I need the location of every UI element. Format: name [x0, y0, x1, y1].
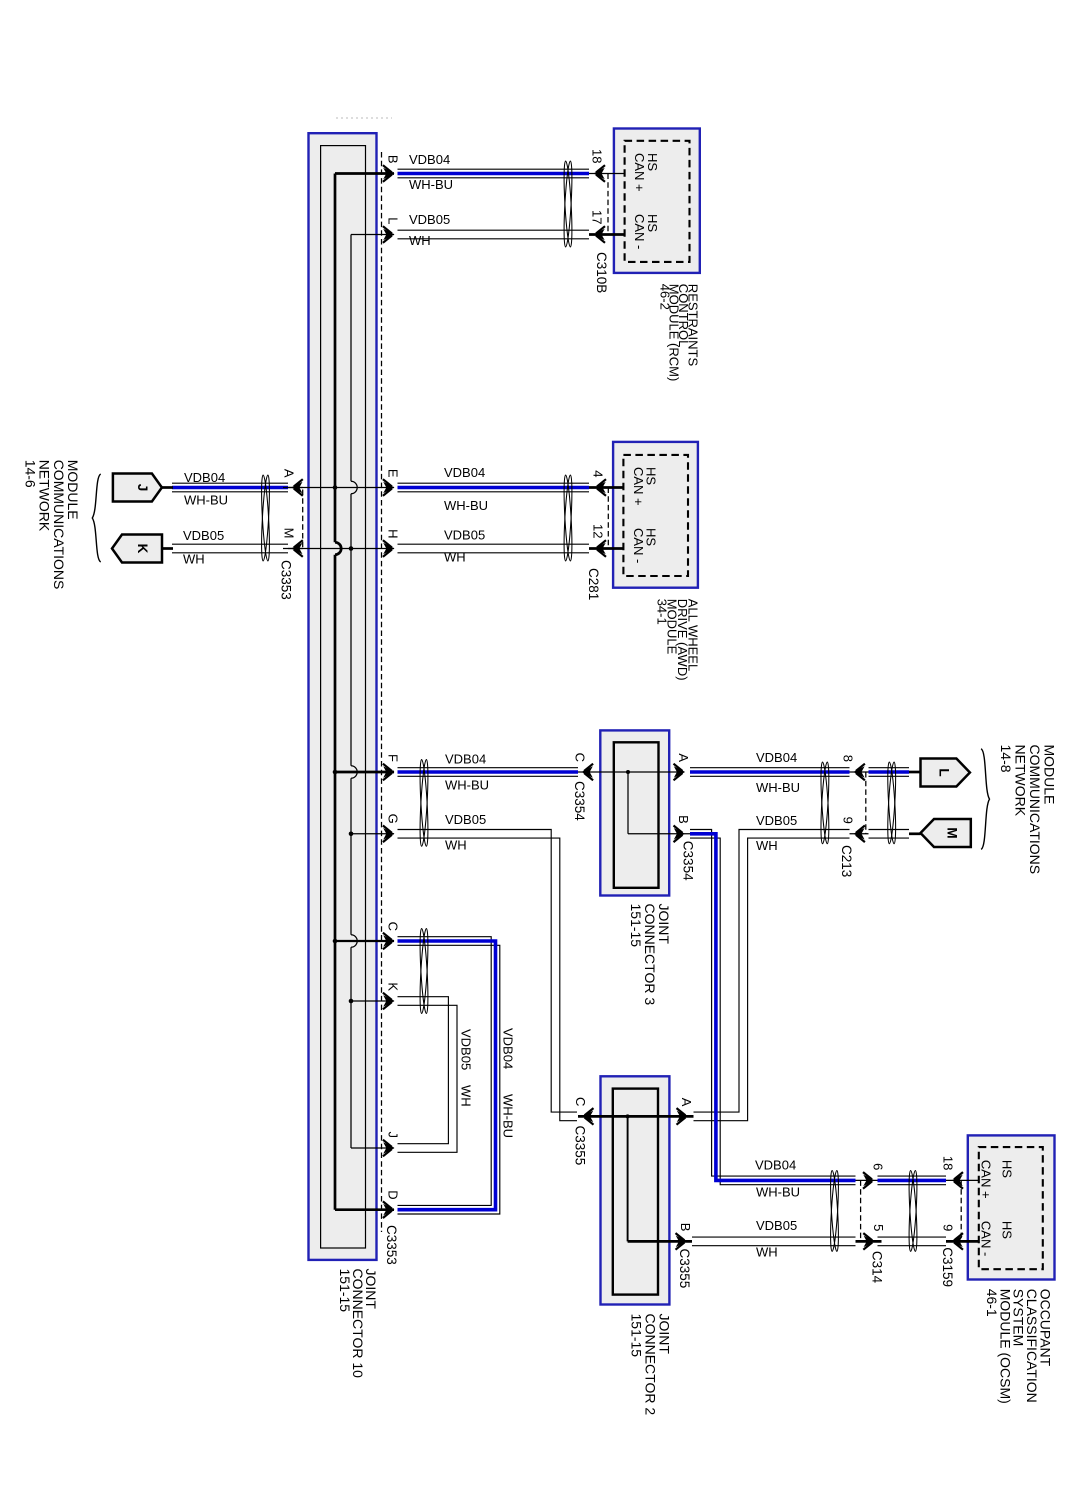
svg-text:VDB05: VDB05: [183, 528, 224, 543]
svg-text:VDB04: VDB04: [756, 750, 797, 765]
svg-text:C: C: [385, 922, 400, 931]
svg-text:14-6: 14-6: [23, 460, 39, 488]
svg-text:C3159: C3159: [940, 1247, 955, 1287]
svg-text:E: E: [385, 469, 400, 478]
svg-text:C314: C314: [870, 1251, 885, 1284]
svg-text:C3355: C3355: [677, 1249, 692, 1289]
svg-text:G: G: [385, 814, 400, 824]
svg-text:HS: HS: [1000, 1221, 1015, 1239]
svg-text:VDB04: VDB04: [501, 1028, 516, 1069]
svg-text:151-15: 151-15: [628, 1314, 644, 1358]
svg-text:B: B: [676, 815, 691, 824]
svg-text:C: C: [573, 1097, 588, 1106]
svg-text:VDB05: VDB05: [756, 1218, 797, 1233]
svg-text:C3355: C3355: [572, 1126, 587, 1166]
svg-text:L: L: [936, 768, 951, 776]
svg-text:VDB05: VDB05: [459, 1029, 474, 1070]
svg-text:WH-BU: WH-BU: [444, 498, 488, 513]
svg-text:CAN +: CAN +: [632, 153, 647, 192]
svg-text:C3353: C3353: [279, 560, 294, 600]
svg-text:4: 4: [591, 470, 606, 477]
svg-text:WH: WH: [409, 233, 431, 248]
svg-text:CAN -: CAN -: [632, 214, 647, 249]
svg-text:VDB04: VDB04: [755, 1157, 796, 1172]
svg-text:8: 8: [840, 755, 855, 762]
svg-text:VDB04: VDB04: [444, 465, 485, 480]
svg-text:VDB04: VDB04: [445, 752, 486, 767]
svg-text:K: K: [135, 544, 150, 554]
svg-text:9: 9: [941, 1224, 956, 1231]
svg-text:CAN +: CAN +: [979, 1160, 994, 1199]
svg-text:M: M: [281, 528, 296, 539]
svg-text:C: C: [573, 753, 588, 762]
svg-text:18: 18: [590, 149, 605, 163]
svg-text:A: A: [281, 469, 296, 478]
svg-text:WH-BU: WH-BU: [756, 780, 800, 795]
svg-text:C310B: C310B: [594, 252, 609, 293]
svg-text:A: A: [676, 753, 691, 762]
svg-text:C3354: C3354: [681, 841, 696, 881]
svg-text:CAN +: CAN +: [631, 467, 646, 506]
svg-text:12: 12: [591, 524, 606, 538]
svg-text:WH: WH: [756, 838, 778, 853]
svg-text:151-15: 151-15: [337, 1269, 353, 1313]
svg-text:WH-BU: WH-BU: [445, 777, 489, 792]
svg-text:WH-BU: WH-BU: [501, 1094, 516, 1138]
svg-text:J: J: [135, 484, 150, 492]
svg-text:B: B: [678, 1223, 693, 1232]
svg-text:VDB05: VDB05: [409, 212, 450, 227]
svg-text:WH-BU: WH-BU: [409, 177, 453, 192]
svg-text:C3354: C3354: [572, 781, 587, 821]
svg-text:HS: HS: [1000, 1160, 1015, 1178]
svg-text:6: 6: [871, 1163, 886, 1170]
svg-text:151-15: 151-15: [628, 904, 644, 948]
svg-text:WH: WH: [444, 550, 466, 565]
svg-text:5: 5: [871, 1224, 886, 1231]
svg-text:WH: WH: [183, 552, 205, 567]
svg-text:CAN -: CAN -: [631, 528, 646, 563]
svg-text:C213: C213: [839, 845, 854, 877]
svg-text:F: F: [385, 754, 400, 762]
svg-text:L: L: [385, 217, 400, 224]
svg-text:M: M: [945, 827, 960, 838]
svg-text:46-2: 46-2: [657, 284, 672, 310]
svg-text:WH: WH: [756, 1244, 778, 1259]
svg-text:C3353: C3353: [384, 1225, 399, 1265]
svg-text:18: 18: [941, 1156, 956, 1170]
svg-text:C281: C281: [586, 568, 601, 600]
svg-text:14-8: 14-8: [998, 745, 1014, 773]
svg-text:WH: WH: [459, 1085, 474, 1107]
svg-text:H: H: [385, 529, 400, 538]
svg-text:VDB05: VDB05: [445, 812, 486, 827]
svg-text:VDB04: VDB04: [409, 152, 450, 167]
svg-text:9: 9: [840, 817, 855, 824]
svg-text:VDB04: VDB04: [184, 470, 225, 485]
svg-text:J: J: [385, 1132, 400, 1139]
svg-text:K: K: [385, 982, 400, 991]
svg-text:46-1: 46-1: [984, 1289, 1000, 1317]
svg-text:VDB05: VDB05: [444, 528, 485, 543]
svg-text:D: D: [385, 1190, 400, 1199]
svg-text:B: B: [385, 155, 400, 164]
svg-text:17: 17: [590, 210, 605, 224]
svg-text:CAN -: CAN -: [979, 1221, 994, 1256]
svg-text:WH: WH: [445, 837, 467, 852]
svg-text:WH-BU: WH-BU: [756, 1185, 800, 1200]
svg-text:A: A: [679, 1098, 694, 1107]
svg-text:34-1: 34-1: [654, 599, 669, 625]
svg-text:VDB05: VDB05: [756, 813, 797, 828]
svg-text:WH-BU: WH-BU: [184, 493, 228, 508]
